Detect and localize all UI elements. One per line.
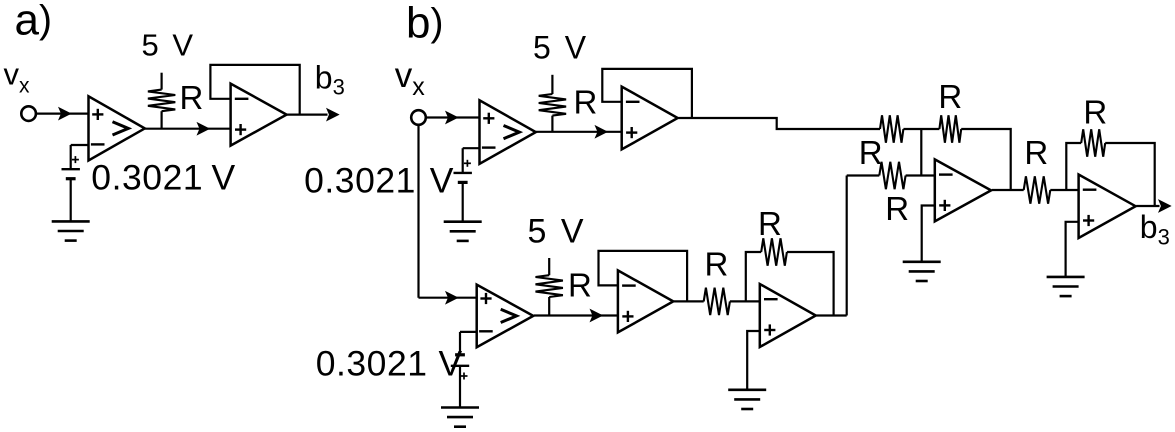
resistor R input-1 of summing amp (b) bbox=[880, 115, 903, 142]
battery V1 0.3021 V (a) bbox=[62, 156, 80, 179]
svg-text:R: R bbox=[705, 245, 729, 282]
feedback loop final amp with resistor R (b) bbox=[1066, 143, 1154, 206]
op-amp U2 buffer (a) bbox=[231, 84, 287, 146]
svg-text:0.3021: 0.3021 bbox=[316, 344, 428, 384]
battery V2 0.3021 V upper (b) bbox=[454, 160, 472, 183]
svg-text:V: V bbox=[430, 160, 454, 200]
svg-text:R: R bbox=[938, 78, 962, 115]
svg-text:R: R bbox=[859, 134, 883, 171]
svg-text:R: R bbox=[885, 190, 909, 227]
op-amp U5 buffer upper (b) bbox=[622, 87, 678, 150]
resistor R input of final amp (b) bbox=[1024, 176, 1051, 203]
svg-text:5 V: 5 V bbox=[142, 27, 196, 62]
resistor R pullup (a) bbox=[148, 90, 175, 112]
feedback loop inverting amp with resistor R (b) bbox=[746, 252, 834, 316]
op-amp U8 final (b) bbox=[1079, 175, 1136, 239]
wire summing output to final resistor (b) bbox=[992, 189, 1024, 191]
resistor R series lower chain (b) bbox=[704, 288, 730, 315]
wire battery V2 to ground (b) bbox=[462, 182, 464, 221]
svg-text:R: R bbox=[1083, 94, 1107, 131]
input terminal circle (a) bbox=[21, 106, 36, 121]
resistor R pullup upper (b) bbox=[539, 94, 566, 116]
wire riser from lower chain to summing row (b) bbox=[846, 176, 848, 316]
wire 5V supply stub upper (b) bbox=[551, 75, 553, 94]
comparator U3 upper (b) bbox=[480, 100, 536, 164]
feedback wire buffer U6 (b) bbox=[599, 251, 688, 302]
wire vx to comparator + input (a) bbox=[36, 108, 89, 120]
wire comparator - input to battery (a) bbox=[71, 145, 89, 169]
wire resistor to node (b upper) bbox=[551, 116, 553, 132]
wire resistor to final amp - input (b) bbox=[1050, 189, 1078, 191]
ground (a) bbox=[52, 221, 90, 240]
op-amp U6 buffer lower (b) bbox=[618, 270, 673, 332]
wire summing feedback to output (b) bbox=[961, 129, 1011, 190]
svg-text:R: R bbox=[574, 84, 598, 121]
wire 5V supply stub lower (b) bbox=[548, 258, 550, 275]
wire comparator output to op-amp + input (a) bbox=[145, 123, 231, 135]
svg-text:R: R bbox=[758, 205, 782, 242]
comparator U4 lower (b) bbox=[477, 285, 534, 348]
wire comparator U4 - input to battery (b) bbox=[460, 332, 477, 355]
resistor R input-2 of summing amp (b) bbox=[879, 162, 905, 189]
wire final amp + input to ground (b) bbox=[1066, 222, 1079, 277]
wire vx to comparator U4 + input (b) bbox=[419, 292, 477, 304]
wire battery to ground (a) bbox=[70, 179, 72, 222]
svg-text:5 V: 5 V bbox=[528, 212, 587, 250]
wire buffer U6 output to resistor (b) bbox=[674, 300, 704, 302]
ground summing amp (b) bbox=[903, 262, 941, 281]
resistor R feedback inverting lower (b) bbox=[761, 238, 787, 265]
wire final output b3 (b) bbox=[1136, 200, 1170, 212]
wire op-amp output b3 (a) bbox=[287, 109, 339, 121]
svg-text:b): b) bbox=[406, 0, 443, 47]
wire summing amp + input to ground (b) bbox=[922, 206, 935, 262]
wire resistor to output node (a) bbox=[161, 111, 163, 129]
feedback wire op-amp U2 (a) bbox=[210, 65, 299, 115]
input terminal circle (b) bbox=[411, 110, 426, 125]
wire inverting amp + input to ground (b) bbox=[747, 331, 760, 390]
wire battery V3 to ground (b) bbox=[459, 366, 461, 408]
wire comparator U3 - input to battery (b) bbox=[463, 148, 480, 173]
wire to summing node (b) bbox=[903, 128, 939, 130]
wire comparator U3 output to buffer U5 (b) bbox=[536, 126, 622, 138]
svg-text:R: R bbox=[180, 79, 204, 116]
wire inverting amp output to riser (b) bbox=[816, 314, 846, 316]
resistor R pullup lower (b) bbox=[536, 275, 563, 297]
op-amp U9 inverting lower (b) bbox=[760, 284, 816, 347]
svg-text:5 V: 5 V bbox=[533, 30, 589, 66]
wire resistor to inverting amp - input (b) bbox=[730, 300, 760, 302]
svg-text:R: R bbox=[568, 266, 592, 303]
wire vx riser to lower comparator (b) bbox=[417, 125, 419, 298]
node summing junction riser (b) bbox=[920, 129, 922, 176]
svg-text:0.3021: 0.3021 bbox=[304, 160, 416, 200]
wire summing row-2 lead (b) bbox=[847, 174, 880, 176]
ground inverting amp (b) bbox=[728, 390, 766, 409]
ground for battery V2 (b) bbox=[444, 222, 482, 241]
wire resistor to summing amp - input (b) bbox=[906, 174, 935, 176]
op-amp U7 summing (b) bbox=[935, 159, 991, 221]
svg-text:a): a) bbox=[15, 0, 52, 45]
comparator U1 (a) bbox=[89, 96, 145, 160]
svg-text:0.3021: 0.3021 bbox=[91, 158, 203, 198]
feedback wire buffer U5 (b) bbox=[602, 69, 692, 118]
resistor R feedback of summing amp (b) bbox=[939, 115, 961, 142]
wire resistor to node (b lower) bbox=[548, 297, 550, 316]
ground final amp (b) bbox=[1047, 277, 1085, 296]
resistor R feedback final (b) bbox=[1081, 129, 1105, 156]
svg-text:V: V bbox=[439, 344, 463, 384]
ground for battery V3 (b) bbox=[441, 408, 479, 427]
wire buffer U5 output to summing resistor (b) bbox=[678, 118, 880, 129]
svg-text:V: V bbox=[212, 158, 236, 198]
wire 5V supply stub (a) bbox=[161, 73, 163, 90]
wire comparator U4 output to buffer U6 (b) bbox=[534, 310, 618, 322]
battery V3 0.3021 V lower, reversed (b) bbox=[451, 355, 469, 380]
svg-text:R: R bbox=[1024, 134, 1048, 171]
wire vx to comparator U3 + input (b) bbox=[426, 112, 480, 124]
